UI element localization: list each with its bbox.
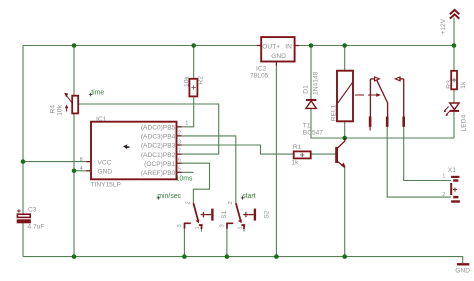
junction top rail at R4 bbox=[72, 43, 77, 48]
wire R3 to LED4 bbox=[453, 89, 455, 103]
svg-text:5: 5 bbox=[178, 167, 181, 173]
svg-text:start: start bbox=[242, 193, 255, 200]
stub relay contact left unconnected bbox=[369, 127, 371, 131]
R1 origin cross bbox=[300, 153, 304, 157]
resistor R4 body bbox=[72, 96, 78, 114]
junction bus at R4 column bbox=[72, 254, 77, 259]
T1 emitter arrowhead bbox=[341, 163, 346, 167]
transistor T1 base bar bbox=[335, 147, 338, 163]
svg-text:(ADC3)PB4: (ADC3)PB4 bbox=[141, 134, 176, 141]
wire +12V stem bbox=[453, 18, 455, 46]
relay pin stub 2 bbox=[386, 117, 389, 127]
IC2 body 78L05 bbox=[261, 37, 294, 61]
svg-text:REL1: REL1 bbox=[330, 104, 337, 121]
junction top rail at coil bbox=[342, 43, 347, 48]
S2 contact pin1 bracket bbox=[241, 225, 245, 229]
junction bus at S2 bbox=[225, 254, 230, 259]
svg-text:3: 3 bbox=[177, 224, 183, 227]
wire left rail lower below C3 bbox=[22, 223, 24, 257]
svg-text:(ADC1)PB2: (ADC1)PB2 bbox=[141, 152, 176, 159]
svg-text:8: 8 bbox=[80, 157, 83, 163]
svg-text:2: 2 bbox=[178, 130, 181, 136]
svg-text:C3: C3 bbox=[28, 206, 37, 213]
wire R1 to T1 base bbox=[311, 153, 336, 155]
junction left rail VCC tap bbox=[21, 159, 26, 164]
wire pin5 stub 10ms bbox=[177, 171, 194, 173]
svg-text:2: 2 bbox=[228, 201, 234, 204]
svg-text:IN: IN bbox=[285, 43, 292, 50]
T1 collector bbox=[338, 138, 345, 148]
wire VCC pin8 bbox=[23, 161, 91, 163]
junction top rail at R2 bbox=[191, 43, 196, 48]
S1 contact pin3 bracket bbox=[184, 223, 191, 229]
svg-text:6: 6 bbox=[178, 158, 181, 164]
svg-text:78L05: 78L05 bbox=[250, 73, 269, 80]
contact 1 top hook arrow right bbox=[370, 78, 375, 80]
X1 plus mark bbox=[453, 188, 457, 192]
svg-text:2: 2 bbox=[186, 201, 192, 204]
svg-text:time: time bbox=[91, 90, 104, 97]
capacitor C3 top plate bbox=[17, 214, 30, 217]
S1 lever bbox=[193, 203, 198, 220]
S2 contact pin3 bracket bbox=[226, 223, 233, 229]
wire R2 bottom to pin1 bbox=[177, 96, 194, 126]
wire +5V top rail right of IC2 bbox=[295, 45, 454, 47]
label origin cross time bbox=[89, 93, 92, 96]
svg-text:TINY15LP: TINY15LP bbox=[91, 182, 122, 189]
wire relay contact right to X1 pin1 bbox=[404, 127, 451, 181]
svg-text:+12V: +12V bbox=[440, 18, 447, 34]
wire relay coil bottom lead bbox=[344, 121, 346, 138]
wire R4 bottom column to bus bbox=[73, 113, 75, 256]
wire D1 bottom and coil net to LED column bbox=[311, 109, 454, 139]
relay pin stub 1 bbox=[369, 117, 372, 127]
wire pin2 to S2 start bbox=[177, 136, 236, 203]
svg-text:(OCP)PB1: (OCP)PB1 bbox=[144, 161, 175, 168]
IC1 pin stubs right bbox=[177, 127, 182, 173]
svg-text:R2: R2 bbox=[198, 76, 205, 85]
R4 wiper arrow bbox=[66, 95, 72, 103]
S2 lever bbox=[236, 203, 241, 220]
label origin cross start bbox=[241, 196, 244, 199]
svg-text:R1: R1 bbox=[293, 144, 302, 151]
X1 left bar bbox=[450, 183, 452, 195]
resistor R3 body bbox=[451, 71, 457, 90]
capacitor C3 bottom plate bbox=[17, 220, 30, 223]
svg-text:4: 4 bbox=[80, 166, 83, 172]
svg-text:(AREF)PB0: (AREF)PB0 bbox=[141, 170, 176, 177]
T1 emitter bbox=[338, 162, 345, 168]
svg-text:3: 3 bbox=[220, 224, 226, 227]
relay REL1 coil bbox=[337, 71, 353, 122]
svg-text:10k: 10k bbox=[184, 76, 191, 87]
svg-text:VCC: VCC bbox=[98, 159, 112, 166]
S1 actuator cross arrows bbox=[201, 213, 205, 217]
wire GND pin4 bbox=[74, 170, 91, 172]
svg-text:7: 7 bbox=[178, 149, 181, 155]
wire ground bus bbox=[23, 257, 463, 264]
wire relay contact mid to X1 pin2 bbox=[387, 127, 451, 198]
junction bus at S1 bbox=[182, 254, 187, 259]
wire S1 pin3 leg to bus bbox=[183, 229, 185, 257]
+12V supply symbol bbox=[450, 10, 459, 19]
LED4 cathode bar bbox=[450, 110, 459, 112]
svg-text:3: 3 bbox=[178, 139, 181, 145]
S2 plunger bbox=[248, 214, 253, 216]
resistor R2 body bbox=[189, 79, 197, 97]
svg-text:1k: 1k bbox=[291, 160, 299, 167]
wire left rail upper bbox=[22, 46, 24, 215]
svg-text:GND: GND bbox=[271, 53, 286, 60]
wire time net: R4 wiper to pin7 bbox=[79, 104, 219, 154]
coil actuation dashes to contact bbox=[355, 94, 377, 96]
R3 origin cross bbox=[452, 78, 456, 82]
svg-text:IC2: IC2 bbox=[256, 65, 267, 72]
svg-text:X1: X1 bbox=[448, 167, 456, 174]
svg-text:T1: T1 bbox=[303, 122, 311, 129]
LED4 triangle bbox=[450, 103, 459, 110]
wire S2 pin3 leg to bus bbox=[226, 229, 228, 257]
X1 bottom cap bbox=[451, 200, 460, 202]
S1 lever arrowhead bbox=[196, 219, 200, 223]
svg-text:1: 1 bbox=[238, 226, 244, 229]
svg-text:1: 1 bbox=[442, 174, 445, 180]
relay contact 2 post bbox=[403, 79, 405, 121]
relay pin stub 3 bbox=[402, 117, 405, 127]
X1 pin2 contact bbox=[453, 196, 458, 198]
contact 2 top hook arrow left bbox=[399, 78, 404, 80]
svg-text:(ADC0)PB5: (ADC0)PB5 bbox=[141, 125, 176, 132]
junction bus at IC2 GND bbox=[274, 254, 279, 259]
svg-text:(ADC2)PB3: (ADC2)PB3 bbox=[141, 143, 176, 150]
stub S1 pin1 bbox=[201, 226, 203, 232]
svg-text:R4: R4 bbox=[50, 105, 57, 114]
junction GND pin4 bbox=[72, 169, 77, 174]
svg-text:2: 2 bbox=[442, 192, 445, 198]
svg-text:1N4148: 1N4148 bbox=[312, 71, 319, 95]
stub S2 pin1 bbox=[243, 226, 245, 232]
svg-text:BC547: BC547 bbox=[303, 130, 323, 137]
svg-text:IC1: IC1 bbox=[96, 116, 107, 123]
resistor R1 body bbox=[294, 151, 311, 158]
X1 pin1 cap bbox=[451, 176, 459, 178]
svg-text:1: 1 bbox=[195, 226, 201, 229]
junction top rail at D1 bbox=[309, 43, 314, 48]
svg-text:1k: 1k bbox=[460, 81, 467, 89]
contact 1 lever diagonal bbox=[377, 80, 388, 121]
svg-text:1: 1 bbox=[185, 121, 188, 127]
wire +5V top rail left bbox=[23, 45, 261, 47]
svg-text:R3: R3 bbox=[446, 80, 453, 89]
svg-text:D1: D1 bbox=[302, 85, 309, 94]
junction top rail at +12V bbox=[452, 43, 457, 48]
R2 origin cross bbox=[191, 85, 195, 89]
relay contact 1 throw post bbox=[369, 79, 371, 121]
wire IC2 GND down to bus bbox=[275, 62, 277, 257]
S2 lever arrowhead bbox=[238, 219, 242, 223]
wire D1 top lead bbox=[310, 46, 312, 100]
wire R3 top lead bbox=[453, 46, 455, 71]
S1 contact pin1 bracket bbox=[199, 225, 203, 229]
LED4 emission arrows bbox=[444, 107, 448, 111]
svg-text:S2: S2 bbox=[264, 210, 271, 218]
R4 adjust arrow bbox=[66, 107, 68, 111]
IC1 pin stubs left bbox=[86, 162, 91, 171]
S2 actuator cross arrows bbox=[244, 213, 248, 217]
wire R4 top lead bbox=[73, 46, 75, 96]
svg-text:GND: GND bbox=[98, 169, 113, 176]
diode D1 triangle bbox=[306, 101, 316, 109]
coil diagonal bbox=[338, 83, 352, 103]
svg-text:min/sec: min/sec bbox=[157, 193, 181, 200]
svg-text:4.7uF: 4.7uF bbox=[28, 223, 45, 230]
svg-text:GND: GND bbox=[455, 267, 470, 274]
wire LED4 bottom bbox=[453, 112, 455, 138]
svg-text:10ms: 10ms bbox=[176, 176, 193, 183]
svg-text:OUT+: OUT+ bbox=[262, 43, 280, 50]
wire R2 top lead bbox=[193, 46, 195, 79]
wire T1 emitter to bus bbox=[344, 166, 346, 257]
diode D1 cathode bar bbox=[306, 99, 316, 101]
wire relay coil top lead bbox=[344, 46, 346, 71]
GND symbol bar bbox=[457, 263, 469, 265]
S1 plunger bbox=[206, 214, 211, 216]
svg-text:S1: S1 bbox=[221, 210, 228, 218]
label origin cross min/sec bbox=[157, 196, 160, 199]
junction bus at emitter bbox=[342, 254, 347, 259]
wire pin6 to S1 min/sec bbox=[177, 163, 210, 203]
wire pin3 to R1 bbox=[177, 145, 294, 154]
C3 plus mark bbox=[17, 209, 20, 212]
IC1 body TINY15LP bbox=[91, 122, 177, 180]
X1 pin1 contact bbox=[453, 179, 458, 181]
svg-text:LED4: LED4 bbox=[461, 114, 468, 131]
IC2 pin stubs bbox=[257, 46, 299, 66]
svg-text:10k: 10k bbox=[57, 104, 64, 115]
mouse cursor bbox=[123, 144, 129, 149]
junction coil bottom / collector bbox=[342, 136, 347, 141]
